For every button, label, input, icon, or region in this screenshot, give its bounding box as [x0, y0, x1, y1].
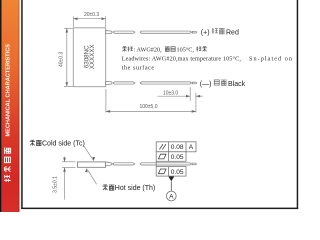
svg-text:0.05: 0.05 [171, 154, 184, 161]
svg-text:10±3.0: 10±3.0 [163, 90, 178, 96]
svg-text:the surface: the surface [122, 64, 155, 71]
svg-text:0.05: 0.05 [171, 169, 184, 176]
svg-text:(+): (+) [201, 29, 210, 36]
svg-text:100±5.0: 100±5.0 [139, 104, 157, 110]
svg-text:Black: Black [228, 81, 246, 88]
svg-text:Cold side (Tc): Cold side (Tc) [42, 140, 85, 147]
svg-text:0.08: 0.08 [171, 144, 184, 151]
svg-text:40±0.3: 40±0.3 [58, 52, 64, 67]
svg-text:Red: Red [226, 29, 239, 36]
svg-text:XXXXXX: XXXXXX [89, 44, 96, 69]
svg-text:A: A [169, 193, 174, 200]
svg-text:MECHANICAL CHARACTERISTICS: MECHANICAL CHARACTERISTICS [5, 44, 11, 137]
svg-text:(—): (—) [200, 81, 212, 88]
svg-text:Sn-plated on: Sn-plated on [249, 55, 293, 62]
svg-text:Leadwires: AWG#20,max temperat: Leadwires: AWG#20,max temperature 105°C, [122, 55, 242, 62]
svg-text:A: A [189, 144, 194, 151]
svg-text:Hot side (Th): Hot side (Th) [115, 185, 155, 192]
svg-text:3.5±0.1: 3.5±0.1 [52, 176, 58, 193]
svg-text:105°C,: 105°C, [177, 46, 195, 53]
svg-text:: AWG#20,: : AWG#20, [134, 46, 162, 53]
svg-text:20±0.3: 20±0.3 [84, 12, 99, 18]
